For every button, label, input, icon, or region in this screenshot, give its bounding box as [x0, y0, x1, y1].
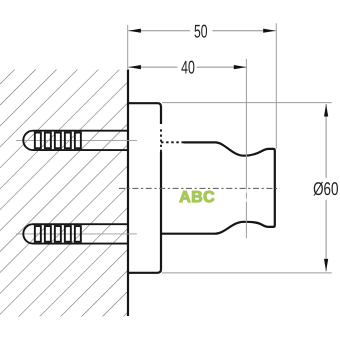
- extension line left: [127, 25, 129, 70]
- lower screw anchor outline: [23, 224, 128, 243]
- part centerline: [119, 187, 280, 189]
- wall face line: [127, 70, 129, 317]
- upper screw anchor outline: [23, 131, 128, 150]
- holder body profile: [161, 142, 275, 233]
- lower screw centerline: [16, 233, 137, 235]
- dimension 50: [128, 21, 275, 42]
- body hidden top edge: [161, 141, 184, 143]
- extension line 40 right: [245, 59, 247, 238]
- svg-text:ABC: ABC: [179, 189, 215, 206]
- upper screw centerline: [16, 139, 137, 141]
- extension line 50 right: [275, 23, 277, 148]
- upper screw anchor slots: [35, 133, 81, 149]
- dimension dia 60: [313, 104, 338, 271]
- extension line dia bottom: [162, 272, 332, 274]
- lower screw anchor slots: [35, 226, 81, 242]
- flange plate hidden edge (screw hole): [160, 129, 162, 152]
- svg-text:Ø60: Ø60: [313, 178, 338, 199]
- svg-text:50: 50: [194, 21, 208, 42]
- dimension 40: [128, 57, 246, 78]
- flange plate outline: [128, 103, 161, 124]
- svg-text:ABC: ABC: [218, 188, 254, 205]
- extension line dia top: [162, 102, 332, 104]
- svg-text:40: 40: [181, 57, 195, 78]
- flange plate lower right edge: [128, 152, 161, 273]
